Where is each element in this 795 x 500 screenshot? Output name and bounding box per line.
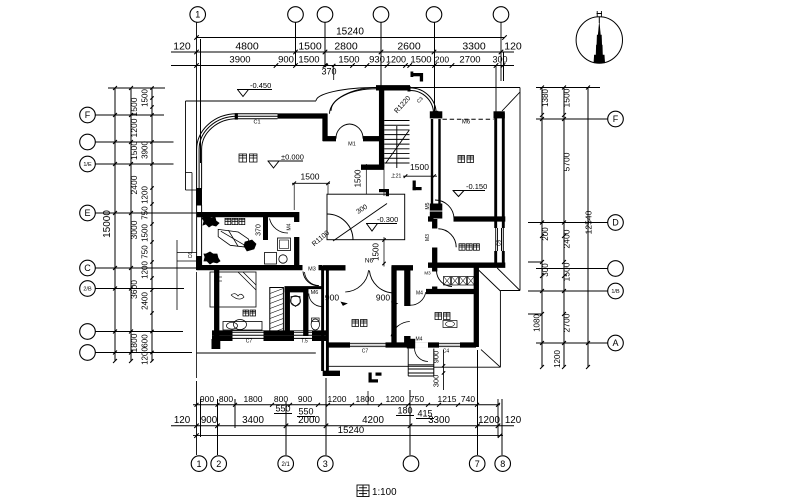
svg-text:3600: 3600 bbox=[129, 280, 139, 299]
svg-text:1200: 1200 bbox=[141, 261, 150, 279]
svg-text:1500: 1500 bbox=[410, 55, 431, 66]
svg-text:D: D bbox=[612, 218, 619, 228]
svg-text:1215: 1215 bbox=[438, 394, 457, 404]
svg-text:120: 120 bbox=[174, 415, 191, 426]
svg-text:900: 900 bbox=[278, 55, 294, 66]
svg-text:900: 900 bbox=[432, 351, 441, 364]
svg-text:1500: 1500 bbox=[129, 97, 139, 116]
svg-text:1800: 1800 bbox=[129, 333, 139, 352]
svg-text:1200: 1200 bbox=[141, 347, 150, 365]
svg-text:750: 750 bbox=[141, 245, 150, 259]
svg-text:900: 900 bbox=[200, 394, 214, 404]
svg-text:370: 370 bbox=[321, 67, 336, 77]
svg-text:600: 600 bbox=[141, 334, 150, 348]
svg-text:1200: 1200 bbox=[553, 350, 562, 368]
svg-text:1080: 1080 bbox=[533, 314, 542, 332]
svg-text:370: 370 bbox=[256, 224, 263, 236]
svg-text:1500: 1500 bbox=[562, 262, 572, 281]
svg-text:800: 800 bbox=[219, 394, 233, 404]
svg-text:1200: 1200 bbox=[141, 186, 150, 204]
svg-text:3300: 3300 bbox=[462, 41, 486, 53]
svg-text:-0.300: -0.300 bbox=[377, 215, 398, 224]
svg-text:F: F bbox=[613, 114, 619, 124]
svg-text:1: 1 bbox=[196, 459, 201, 469]
svg-text:1500: 1500 bbox=[338, 55, 359, 66]
svg-text:2/B: 2/B bbox=[83, 286, 92, 292]
svg-text:C: C bbox=[84, 263, 91, 273]
svg-text:F: F bbox=[85, 110, 91, 120]
svg-text:200: 200 bbox=[541, 227, 550, 241]
svg-text:上21: 上21 bbox=[391, 173, 402, 180]
svg-text:1800: 1800 bbox=[356, 394, 375, 404]
svg-text:4800: 4800 bbox=[235, 41, 259, 53]
svg-text:550: 550 bbox=[275, 404, 290, 414]
svg-text:200: 200 bbox=[435, 55, 449, 65]
svg-text:15240: 15240 bbox=[336, 27, 364, 38]
svg-text:12540: 12540 bbox=[584, 210, 594, 234]
svg-text:1380: 1380 bbox=[541, 89, 550, 107]
svg-text:120: 120 bbox=[173, 41, 191, 53]
svg-text:-0.150: -0.150 bbox=[466, 182, 487, 191]
svg-text:1200: 1200 bbox=[386, 394, 405, 404]
svg-text:4200: 4200 bbox=[362, 415, 384, 426]
svg-text:2600: 2600 bbox=[397, 41, 421, 53]
svg-text:1500: 1500 bbox=[141, 224, 150, 242]
svg-text:C7: C7 bbox=[362, 349, 369, 355]
svg-text:1500: 1500 bbox=[298, 41, 322, 53]
svg-text:M5: M5 bbox=[425, 202, 431, 209]
svg-text:900: 900 bbox=[376, 293, 390, 303]
svg-text:3000: 3000 bbox=[129, 220, 139, 239]
svg-text:2400: 2400 bbox=[562, 229, 572, 248]
svg-text:2800: 2800 bbox=[334, 41, 358, 53]
svg-text:2700: 2700 bbox=[459, 55, 480, 66]
svg-text:2/1: 2/1 bbox=[282, 462, 291, 468]
svg-text:C4: C4 bbox=[443, 349, 450, 355]
svg-text:M4: M4 bbox=[416, 337, 423, 343]
svg-text:2400: 2400 bbox=[141, 292, 150, 310]
svg-text:750: 750 bbox=[141, 206, 150, 220]
svg-text:M6: M6 bbox=[311, 290, 319, 296]
svg-text:930: 930 bbox=[369, 55, 385, 66]
svg-text:1500: 1500 bbox=[354, 169, 363, 187]
svg-text:1500: 1500 bbox=[301, 172, 320, 182]
svg-text:3: 3 bbox=[323, 459, 328, 469]
svg-text:740: 740 bbox=[461, 394, 475, 404]
svg-text:±0.000: ±0.000 bbox=[281, 153, 304, 162]
svg-text:1500: 1500 bbox=[562, 88, 572, 107]
svg-text:1: 1 bbox=[195, 10, 200, 20]
svg-text:7: 7 bbox=[475, 459, 480, 469]
svg-text:1200: 1200 bbox=[386, 55, 406, 65]
svg-text:N6: N6 bbox=[365, 258, 374, 265]
svg-text:3300: 3300 bbox=[428, 415, 450, 426]
svg-text:8: 8 bbox=[500, 459, 505, 469]
svg-text:300: 300 bbox=[492, 55, 507, 65]
svg-text:1200: 1200 bbox=[129, 118, 139, 137]
svg-text:3400: 3400 bbox=[242, 415, 264, 426]
svg-text:2000: 2000 bbox=[298, 415, 320, 426]
svg-text:A: A bbox=[612, 338, 618, 348]
svg-text:1500: 1500 bbox=[129, 141, 139, 160]
svg-text:C1: C1 bbox=[253, 120, 260, 126]
svg-text:C7: C7 bbox=[246, 339, 253, 345]
svg-text:1200: 1200 bbox=[478, 415, 500, 426]
svg-text:1/E: 1/E bbox=[83, 162, 92, 168]
svg-text:1800: 1800 bbox=[244, 394, 263, 404]
svg-text:1500: 1500 bbox=[141, 89, 150, 107]
svg-text:5700: 5700 bbox=[562, 152, 572, 171]
svg-text:750: 750 bbox=[410, 394, 424, 404]
svg-text:2: 2 bbox=[216, 459, 221, 469]
svg-text:900: 900 bbox=[201, 415, 218, 426]
svg-text:C6: C6 bbox=[188, 252, 194, 259]
svg-text:M3: M3 bbox=[308, 267, 316, 273]
svg-text:15000: 15000 bbox=[102, 210, 113, 238]
svg-text:1:100: 1:100 bbox=[372, 487, 397, 498]
svg-text:-0.450: -0.450 bbox=[250, 81, 271, 90]
svg-text:120: 120 bbox=[504, 41, 522, 53]
svg-text:900: 900 bbox=[298, 394, 312, 404]
svg-text:1200: 1200 bbox=[328, 394, 347, 404]
svg-text:T.5: T.5 bbox=[301, 339, 308, 345]
svg-text:M1: M1 bbox=[348, 142, 356, 148]
svg-text:M6: M6 bbox=[462, 120, 471, 126]
svg-text:15240: 15240 bbox=[338, 425, 364, 436]
svg-text:1500: 1500 bbox=[298, 55, 319, 66]
svg-text:1/B: 1/B bbox=[611, 289, 620, 295]
svg-text:300: 300 bbox=[432, 375, 441, 388]
svg-text:M3: M3 bbox=[424, 271, 431, 276]
svg-text:900: 900 bbox=[325, 293, 339, 303]
svg-text:M3: M3 bbox=[425, 234, 431, 241]
svg-text:2700: 2700 bbox=[562, 313, 572, 332]
svg-text:3900: 3900 bbox=[229, 55, 250, 66]
svg-text:2400: 2400 bbox=[129, 175, 139, 194]
svg-text:3900: 3900 bbox=[141, 141, 150, 159]
svg-text:M4: M4 bbox=[416, 291, 423, 297]
svg-text:M4: M4 bbox=[287, 223, 293, 230]
svg-text:C5: C5 bbox=[497, 240, 503, 247]
svg-text:120: 120 bbox=[505, 415, 522, 426]
svg-text:E: E bbox=[84, 208, 90, 218]
svg-text:300: 300 bbox=[541, 263, 550, 277]
svg-text:1500: 1500 bbox=[410, 162, 429, 172]
